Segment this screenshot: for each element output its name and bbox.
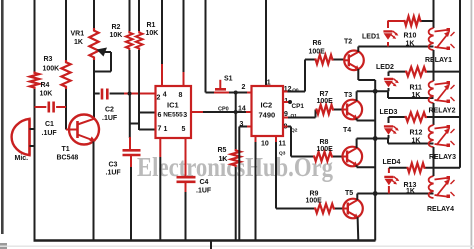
wire R4 bottom / mic branch to ground bus (34, 89, 36, 241)
wire R8 to T4 base (333, 156, 343, 158)
wire relay contacts rail (459, 0, 461, 168)
svg-text:5: 5 (182, 126, 186, 133)
capacitor C3 (106, 137, 141, 177)
svg-text:T3: T3 (344, 92, 352, 99)
wire T5 emitter to ground bus (357, 217, 360, 240)
transistor T2 (344, 39, 364, 71)
svg-text:C3: C3 (109, 162, 118, 169)
wire IC2 pin 3 to ground bus (239, 127, 251, 241)
svg-text:VR1: VR1 (71, 31, 85, 38)
svg-text:2: 2 (157, 95, 161, 102)
svg-text:10K: 10K (146, 30, 159, 37)
svg-text:100E: 100E (317, 146, 334, 153)
wire R9 to T5 base (335, 208, 343, 210)
svg-text:10: 10 (261, 141, 269, 148)
svg-text:.1UF: .1UF (42, 130, 58, 137)
svg-text:LED4: LED4 (383, 159, 401, 166)
wire IC1 pin 1 to ground bus (159, 138, 161, 241)
ground bus (34, 239, 376, 241)
svg-text:RELAY1: RELAY1 (425, 57, 452, 64)
wire IC1 pin 6 (139, 112, 156, 114)
svg-text:2: 2 (242, 84, 246, 91)
relay RELAY3 (429, 125, 456, 168)
resistor R5 (218, 147, 241, 167)
wire +V rail right (433, 0, 435, 28)
wire S1 junction to CP0 junction (235, 93, 237, 113)
svg-text:LED1: LED1 (362, 34, 380, 41)
wire T3 emitter (357, 118, 376, 120)
svg-text:R10: R10 (404, 33, 417, 40)
wire Q0 to R6 (283, 60, 315, 92)
node emitter-line junction row4 (373, 191, 378, 196)
wire R1 bottom to IC1 pin 6 (138, 50, 140, 130)
svg-text:11: 11 (279, 141, 287, 148)
wire +V relay chain 2-3 (433, 117, 435, 125)
capacitor C1 (35, 102, 67, 137)
wire Q2 to R8 (283, 127, 313, 157)
wire common emitter line to ground bus (374, 80, 376, 241)
svg-text:1K: 1K (406, 188, 415, 195)
capacitor C2 (94, 89, 124, 123)
wire C4 to ground bus (185, 192, 187, 241)
svg-text:NE555: NE555 (163, 112, 183, 119)
capacitor C4 (177, 177, 212, 194)
wire T2 collector (358, 47, 433, 53)
wire trigger node down (129, 94, 131, 139)
svg-text:R12: R12 (410, 130, 423, 137)
transistor T5 (343, 190, 363, 218)
svg-text:100E: 100E (317, 98, 334, 105)
svg-text:3: 3 (240, 121, 244, 128)
svg-text:3: 3 (183, 112, 187, 119)
relay RELAY2 (429, 81, 456, 117)
resistor R2 (110, 24, 133, 50)
wire T1 emitter to ground bus (93, 142, 95, 241)
wire R5 to ground bus (235, 167, 237, 241)
svg-text:R6: R6 (313, 40, 322, 47)
svg-text:Mic.: Mic. (15, 155, 29, 162)
wire +V rail to R1 (138, 0, 140, 31)
wire VR1 bottom to T1 collector (93, 60, 95, 119)
potentiometer VR1 (71, 28, 112, 72)
ground stub (210, 241, 212, 249)
svg-text:LED2: LED2 (376, 64, 394, 71)
relay RELAY4 (427, 168, 455, 213)
node emitter-line crossing row2 (373, 89, 378, 94)
svg-text:1K: 1K (406, 41, 415, 48)
svg-text:6: 6 (158, 112, 162, 119)
svg-text:14: 14 (238, 106, 246, 113)
wire +V rail to R4 (34, 0, 36, 72)
wire IC2 pin 10 to ground bus (255, 136, 257, 241)
svg-text:1: 1 (164, 126, 168, 133)
transistor T4 (343, 127, 363, 166)
resistor R1 (136, 22, 159, 50)
resistor R8 (313, 139, 333, 161)
wire R2 bottom to trigger node (129, 50, 131, 94)
node CP1 (283, 100, 292, 104)
svg-text:1K: 1K (412, 92, 421, 99)
wire S1 line (206, 92, 252, 94)
svg-text:T1: T1 (62, 146, 70, 153)
wire +V to IC2 pin 1 (clock) (265, 0, 267, 86)
transistor T1 BC548 (57, 115, 100, 162)
svg-text:100K: 100K (43, 66, 60, 73)
svg-text:10K: 10K (40, 91, 53, 98)
svg-text:CP0: CP0 (218, 107, 229, 113)
svg-text:1K: 1K (219, 156, 228, 163)
svg-text:R3: R3 (44, 56, 53, 63)
wire C3 to ground bus (130, 167, 132, 241)
svg-text:LED3: LED3 (380, 109, 398, 116)
transistor T3 (343, 92, 363, 119)
resistor R7 (316, 91, 335, 114)
switch S1 (215, 76, 233, 91)
wire IC1 pin 7 (139, 129, 156, 131)
svg-text:T5: T5 (345, 190, 353, 197)
svg-text:C1: C1 (45, 121, 54, 128)
wire CP0 junction to R5 (235, 112, 237, 149)
svg-text:1: 1 (267, 80, 271, 87)
wire row2 jog (388, 91, 434, 98)
svg-text:T4: T4 (343, 127, 351, 134)
svg-text:R1: R1 (147, 22, 156, 29)
wire +V to IC1 pin 8 (183, 0, 185, 86)
svg-text:7490: 7490 (259, 111, 276, 120)
svg-text:.1UF: .1UF (106, 170, 122, 177)
node trigger junction (128, 92, 132, 96)
svg-text:1K: 1K (74, 39, 83, 46)
resistor R12 (389, 112, 461, 144)
wire R6 to T2 base (334, 59, 345, 61)
svg-text:R9: R9 (310, 191, 319, 198)
svg-text:8: 8 (179, 92, 183, 99)
resistor R9 (306, 191, 336, 214)
svg-text:.1UF: .1UF (102, 115, 118, 122)
wire +V rail to S1 line (205, 0, 207, 93)
microphone Mic (12, 119, 35, 162)
svg-text:C4: C4 (200, 179, 209, 186)
wire T4 emitter (357, 165, 376, 167)
node S1 junction (234, 91, 238, 95)
svg-text:R2: R2 (112, 24, 121, 31)
wire T4 collector (357, 139, 388, 149)
svg-text:IC1: IC1 (167, 101, 179, 110)
wire R7 to T3 base (334, 109, 343, 111)
svg-text:Q2: Q2 (291, 128, 298, 134)
svg-text:4: 4 (163, 92, 167, 99)
svg-text:S1: S1 (224, 76, 233, 83)
svg-text:1K: 1K (412, 138, 421, 145)
wire C2 to IC1 pin 2 (124, 93, 156, 95)
svg-text:T2: T2 (344, 39, 352, 46)
wire T3 collector (357, 91, 388, 101)
resistor R13 (389, 163, 460, 195)
svg-text:Q3: Q3 (279, 151, 286, 157)
LED4 (383, 159, 401, 194)
svg-text:R11: R11 (410, 85, 423, 92)
wire IC1 pin 5 to C4 (185, 138, 187, 177)
wire +V rail to R3 (65, 0, 67, 60)
wire +V relay chain 1-2 (433, 72, 435, 81)
resistor R4 (30, 72, 52, 98)
svg-text:BC548: BC548 (57, 155, 79, 162)
wire Q3 to R9 (276, 208, 314, 210)
LED3 (380, 109, 399, 139)
svg-text:CP1: CP1 (292, 103, 305, 110)
wire +V rail to R2 (129, 0, 131, 31)
node emitter-line crossing row3 (373, 136, 378, 141)
op-amp timer IC1 NE555 (156, 86, 192, 138)
op-amp counter IC2 7490 (238, 80, 304, 157)
wire +V rail to VR1 (93, 0, 95, 28)
relay RELAY1 (425, 28, 455, 72)
svg-text:10K: 10K (110, 32, 123, 39)
svg-text:R5: R5 (218, 147, 227, 154)
node CP0 junction (234, 110, 238, 114)
wire IC1 pin 3 output CP0 (191, 107, 252, 113)
resistor R11 (389, 67, 461, 99)
svg-text:R4: R4 (41, 82, 50, 89)
wire Q1 to R7 (283, 110, 316, 118)
svg-text:IC2: IC2 (261, 101, 273, 110)
resistor R6 (309, 40, 334, 64)
resistor R3 (43, 56, 71, 89)
svg-text:C2: C2 (105, 107, 114, 114)
svg-text:RELAY4: RELAY4 (427, 206, 454, 213)
LED2 (376, 64, 399, 91)
svg-text:R8: R8 (320, 139, 329, 146)
wire Q3 down from pin 11 (275, 136, 277, 209)
wire +V to IC1 pin 4 (161, 0, 163, 86)
wire T2 emitter (358, 69, 375, 80)
svg-text:.1UF: .1UF (196, 188, 212, 195)
svg-text:100E: 100E (309, 49, 326, 56)
wire row3 jog (388, 139, 434, 144)
wire tee to pin 6/7 (130, 123, 140, 125)
wire R3 bottom to T1 base (65, 89, 67, 130)
resistor R10 (388, 16, 434, 47)
svg-text:R7: R7 (320, 91, 329, 98)
svg-text:7: 7 (158, 126, 162, 133)
svg-text:100E: 100E (306, 198, 323, 205)
wire T5 collector (357, 194, 433, 201)
LED1 (362, 21, 398, 47)
